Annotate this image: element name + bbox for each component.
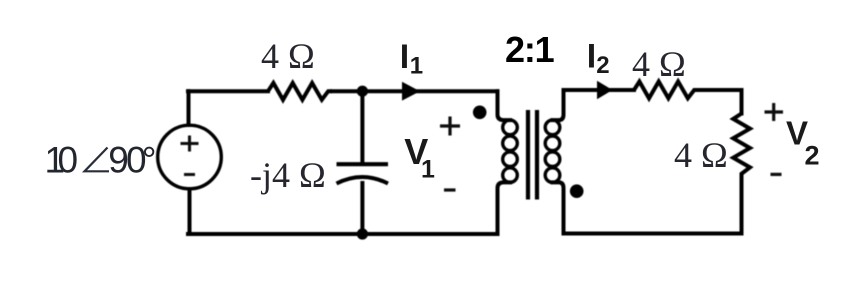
svg-text:1: 1 bbox=[421, 156, 435, 184]
svg-text:-j4 Ω: -j4 Ω bbox=[250, 155, 326, 195]
svg-text:0: 0 bbox=[58, 140, 79, 181]
svg-text:4 Ω: 4 Ω bbox=[632, 44, 686, 84]
svg-text:1: 1 bbox=[410, 52, 423, 79]
svg-text:°: ° bbox=[142, 140, 157, 181]
svg-text:4 Ω: 4 Ω bbox=[674, 135, 728, 175]
svg-text:I: I bbox=[400, 38, 409, 76]
svg-text:4 Ω: 4 Ω bbox=[261, 36, 315, 76]
svg-text:2:1: 2:1 bbox=[505, 29, 555, 70]
svg-text:I: I bbox=[587, 38, 596, 76]
svg-text:2: 2 bbox=[596, 52, 609, 79]
svg-text:2: 2 bbox=[805, 141, 820, 171]
